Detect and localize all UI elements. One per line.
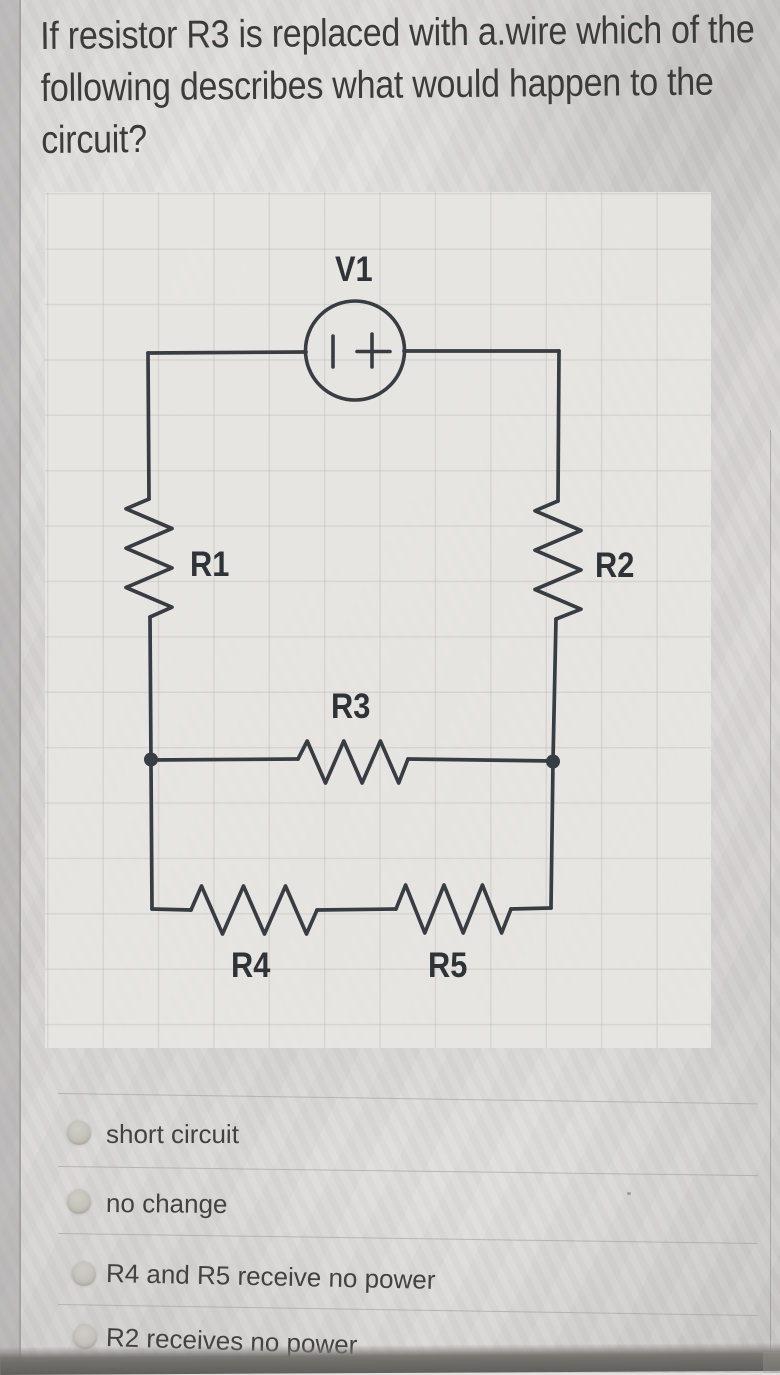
- voltage source V1: [306, 301, 405, 400]
- svg-text:R2: R2: [595, 545, 634, 584]
- resistor R1: [126, 499, 172, 617]
- left panel border: [19, 0, 21, 1373]
- wire left vertical upper: [148, 353, 149, 499]
- resistor R4: [191, 886, 317, 934]
- schematic grid panel: [45, 192, 711, 1048]
- wire middle-right (R3 to right node): [408, 759, 553, 761]
- resistor R3: [298, 741, 408, 783]
- node junction dot right: [546, 755, 560, 769]
- wire left vertical lower: [150, 617, 152, 909]
- wire top-right (V1 plus to right branch): [404, 349, 559, 353]
- V1 plus terminal mark: [357, 334, 390, 367]
- wire right vertical lower: [551, 619, 556, 908]
- answer separator 4: [58, 1304, 758, 1316]
- dust speck: [627, 1192, 631, 1195]
- V1 minus terminal mark: [331, 336, 335, 367]
- svg-text:V1: V1: [335, 249, 373, 288]
- answer separator 1: [58, 1093, 758, 1104]
- bottom dark bar: [0, 1343, 780, 1375]
- wire right vertical upper: [558, 351, 559, 501]
- answer separator 3: [58, 1233, 758, 1244]
- svg-text:R3: R3: [331, 686, 370, 725]
- wire between R4 and R5: [317, 909, 396, 910]
- svg-text:R5: R5: [428, 945, 467, 984]
- svg-text:R1: R1: [190, 544, 229, 583]
- wire top-left (node from V1 minus to left branch): [148, 352, 306, 353]
- node junction dot left: [144, 753, 158, 767]
- wire middle-left (left node to R3): [150, 759, 298, 760]
- svg-text:R4: R4: [231, 945, 271, 984]
- question text: [40, 4, 780, 167]
- resistor R2: [535, 501, 581, 619]
- radio option 4: [73, 1325, 97, 1349]
- radio option 2: [67, 1190, 91, 1214]
- answer separator 2: [58, 1166, 758, 1176]
- radio option 3: [72, 1262, 96, 1286]
- resistor R5: [396, 885, 511, 933]
- wire bottom-left: [152, 909, 191, 910]
- wire bottom-right: [511, 908, 551, 909]
- radio option 1: [67, 1121, 91, 1145]
